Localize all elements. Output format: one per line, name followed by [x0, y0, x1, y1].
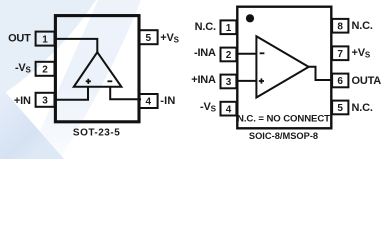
wire pin2 -INA to op-amp - input: [237, 53, 257, 55]
pin 4 box: [139, 94, 158, 108]
pin 5 box: [332, 101, 348, 115]
pin 7 box: [332, 46, 348, 60]
pin 3 box: [221, 75, 237, 89]
pin 3 box: [36, 93, 55, 107]
svg-text:SOIC-8/MSOP-8: SOIC-8/MSOP-8: [249, 131, 318, 141]
svg-text:2: 2: [42, 65, 48, 76]
svg-text:3: 3: [42, 96, 48, 107]
IC body SOT-23-5: [55, 16, 139, 122]
pin 6 box: [332, 74, 348, 88]
svg-text:N.C.: N.C.: [352, 102, 373, 114]
pin 4 box: [221, 102, 237, 116]
pin 1 box: [36, 32, 55, 46]
op-amp + input sign: [259, 78, 264, 83]
wire pin4 -IN to op-amp - input: [110, 87, 141, 100]
pin 1 box: [221, 20, 237, 34]
op-amp - input sign: [260, 52, 265, 54]
svg-text:7: 7: [337, 49, 343, 60]
svg-text:1: 1: [42, 34, 48, 45]
wire pin3 +IN to op-amp + input: [54, 87, 88, 100]
svg-text:OUT: OUT: [8, 32, 31, 44]
IC body SOIC-8/MSOP-8: [237, 7, 331, 129]
op-amp + input sign: [86, 79, 91, 84]
svg-text:-INA: -INA: [194, 47, 216, 59]
svg-text:-IN: -IN: [160, 95, 175, 107]
pin 2 box: [36, 62, 55, 76]
op-amp - input sign: [108, 80, 113, 82]
background swoosh: [0, 0, 384, 159]
pin 2 box: [221, 48, 237, 62]
svg-text:1: 1: [226, 23, 232, 34]
svg-text:4: 4: [226, 104, 232, 115]
svg-text:5: 5: [146, 33, 152, 44]
svg-text:5: 5: [337, 103, 343, 114]
svg-text:OUTA: OUTA: [352, 75, 382, 87]
svg-text:N.C.: N.C.: [352, 20, 373, 32]
op-amp A2 (triangle pointing right): [256, 36, 308, 97]
wire op-amp output to pin6 OUTA: [309, 67, 333, 80]
svg-text:N.C.: N.C.: [195, 21, 216, 33]
svg-text:6: 6: [337, 76, 343, 87]
pin 8 box: [332, 19, 348, 33]
svg-text:8: 8: [337, 22, 343, 33]
svg-text:2: 2: [226, 50, 232, 61]
svg-text:+IN: +IN: [14, 95, 31, 107]
pin 5 box: [139, 30, 158, 44]
svg-text:SOT-23-5: SOT-23-5: [73, 128, 120, 139]
svg-text:+INA: +INA: [191, 74, 216, 86]
op-amp A1 (triangle pointing up): [74, 52, 122, 87]
svg-text:3: 3: [226, 77, 232, 88]
svg-text:4: 4: [146, 97, 152, 108]
pin 1 indicator dot: [246, 14, 254, 22]
wire pin3 +INA to op-amp + input: [237, 80, 257, 82]
svg-text:N.C. = NO CONNECT: N.C. = NO CONNECT: [237, 114, 330, 125]
wire pin1 OUT to op-amp output: [54, 39, 97, 53]
